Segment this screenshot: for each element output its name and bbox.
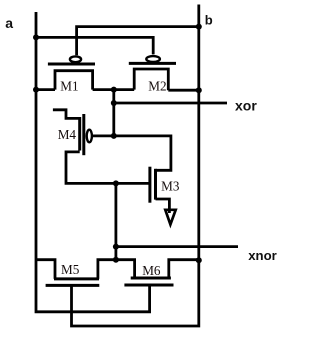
svg-text:xnor: xnor (248, 248, 277, 263)
svg-text:M4: M4 (58, 127, 77, 142)
svg-text:a: a (5, 15, 13, 31)
svg-text:M2: M2 (148, 78, 166, 93)
svg-text:M3: M3 (161, 178, 180, 193)
svg-text:xor: xor (235, 98, 257, 114)
svg-text:M6: M6 (142, 263, 161, 278)
svg-text:b: b (205, 12, 213, 27)
svg-text:M5: M5 (61, 262, 80, 277)
svg-text:M1: M1 (60, 78, 78, 93)
